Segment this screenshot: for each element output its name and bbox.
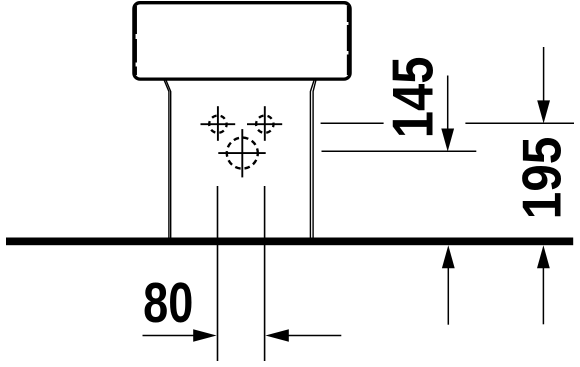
- svg-text:145: 145: [382, 57, 446, 139]
- svg-text:195: 195: [512, 137, 573, 220]
- svg-text:80: 80: [143, 271, 193, 334]
